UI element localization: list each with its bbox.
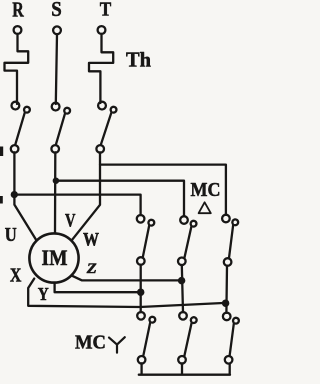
node: S tap junction — [54, 179, 58, 183]
wire T phase to motor terminal W — [71, 152, 100, 240]
main switch S: blade curl — [64, 108, 70, 114]
node: Y junction — [138, 290, 143, 295]
delta switch 2: lower contact — [178, 258, 186, 266]
main switch T: blade curl — [111, 107, 117, 113]
main switch R: blade — [15, 112, 25, 144]
star point bus bar — [139, 363, 230, 374]
svg-text:IM: IM — [42, 245, 68, 270]
svg-text:R: R — [12, 0, 24, 22]
main contactor switch T: fixed contact — [98, 102, 106, 110]
terminal S — [53, 26, 61, 34]
delta switch 2: blade curl — [191, 221, 197, 227]
wire middle column (delta to wye) — [182, 265, 183, 312]
svg-text:MC: MC — [191, 179, 221, 201]
svg-text:Th: Th — [126, 48, 151, 72]
delta switch 3: blade — [229, 225, 233, 258]
wye switch 1: blade — [143, 322, 150, 356]
delta switch 2: blade — [185, 226, 192, 258]
wye switch 2: blade — [184, 322, 191, 355]
terminal T — [98, 26, 106, 34]
main switch S: lower contact — [51, 145, 59, 153]
wye contactor switch 3: fixed contact — [223, 313, 231, 321]
delta switch 1: lower contact — [137, 257, 145, 265]
delta contactor switch 1: fixed contact — [137, 215, 145, 223]
wire motor terminal X to right column — [28, 279, 225, 307]
svg-text:V: V — [65, 211, 76, 232]
delta symbol — [199, 202, 211, 213]
svg-text:U: U — [5, 224, 17, 246]
delta switch 1: blade curl — [148, 220, 154, 226]
wye switch 1: lower contact — [138, 356, 146, 364]
wire S tap to delta contactor (middle) — [56, 181, 184, 217]
svg-text:Y: Y — [38, 284, 49, 304]
thermal overload heater Th, T phase — [89, 34, 113, 103]
wire S phase (straight) — [56, 34, 57, 104]
svg-text:W: W — [83, 230, 99, 251]
delta contactor switch 2: fixed contact — [180, 216, 188, 224]
main contactor switch S: fixed contact — [52, 103, 60, 111]
wire motor terminal Z to middle column — [71, 275, 181, 280]
wire motor terminal Y to left column — [55, 283, 141, 292]
wire R tap to delta contactor (left) — [14, 195, 140, 216]
svg-text:Z: Z — [86, 261, 97, 277]
delta switch 3: lower contact — [224, 258, 232, 266]
scan artifact left edge 1 — [0, 147, 3, 157]
svg-text:X: X — [10, 265, 22, 287]
wire right column (delta to wye) — [225, 266, 228, 313]
wye switch 3: blade — [230, 323, 234, 356]
svg-text:T: T — [100, 0, 112, 21]
main switch T: blade — [101, 112, 112, 144]
node: Z junction — [179, 278, 184, 283]
wye switch 3: lower contact — [225, 356, 233, 364]
wye switch 3: blade curl — [233, 318, 239, 324]
svg-text:S: S — [51, 0, 62, 21]
wire S phase to motor terminal V — [54, 152, 57, 233]
node: X junction — [223, 301, 228, 306]
wire R phase to motor terminal U — [14, 152, 36, 240]
main switch S: blade — [56, 113, 65, 144]
wire left column (delta to wye) — [140, 265, 142, 313]
motor IM — [29, 233, 78, 282]
svg-text:MC: MC — [75, 332, 106, 354]
wye switch 2: blade curl — [191, 317, 197, 323]
main switch R: lower contact — [11, 145, 19, 153]
delta contactor switch 3: fixed contact — [222, 215, 230, 223]
wye contactor switch 2: fixed contact — [179, 312, 187, 320]
wye switch 1: blade curl — [149, 317, 155, 323]
node: R tap junction — [12, 192, 17, 197]
wye switch 2: lower contact — [178, 356, 186, 364]
delta switch 1: blade — [143, 225, 149, 257]
delta switch 3: blade curl — [232, 219, 238, 225]
terminal R — [14, 26, 22, 34]
main switch T: lower contact — [96, 145, 104, 153]
main switch R: blade curl — [24, 107, 30, 113]
scan artifact left edge 2 — [0, 196, 3, 204]
wire T tap to delta contactor (right) — [100, 165, 226, 215]
wye contactor switch 1: fixed contact — [137, 312, 145, 320]
thermal overload heater Th, R phase — [5, 34, 29, 104]
wye symbol — [109, 337, 125, 352]
main contactor switch R: fixed contact — [12, 102, 20, 110]
